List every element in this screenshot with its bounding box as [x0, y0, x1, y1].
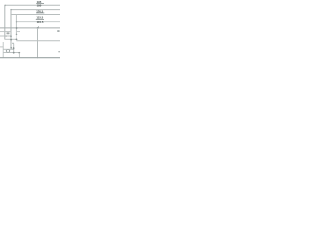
label: stub text right of V2	[12, 43, 14, 44]
wire: H6 stub y=31.6	[16, 31, 20, 33]
wire: vertical V1 x=4.8	[4, 5, 6, 39]
wire: left dim line y=31.6	[0, 31, 11, 33]
wire: profile top edge H1	[5, 4, 60, 6]
node: top-left corner (5,5)	[4, 5, 6, 7]
wire: H4 y=21.7	[16, 21, 60, 23]
wire: V3 faint lower part	[15, 35, 17, 40]
node: circle left dot	[6, 50, 7, 51]
wire: vertical V5 x=13.7	[13, 44, 15, 54]
wire: H5 y=27.9 full width	[0, 27, 60, 29]
wire: vertical V3 x=16.4	[15, 15, 17, 36]
wire: left dim line y=36	[0, 35, 11, 37]
node: V5 dim junction 2	[13, 52, 15, 54]
node: y36 line right end junction	[10, 35, 12, 37]
wire: H8 y=39.3	[5, 38, 17, 40]
wire: left edge line y=46.9	[0, 46, 3, 48]
node: H9 end junction	[18, 52, 20, 54]
wire: dim line y=52.6	[3, 52, 19, 54]
svg-text:180: 180	[37, 3, 42, 7]
wire: vertical V4 x=37.5	[37, 28, 39, 58]
node: V3 mid dot	[16, 34, 18, 36]
node: H4 start dot	[16, 21, 17, 22]
wire: dim line y=49.3	[3, 48, 14, 50]
wire: underline for 115	[36, 18, 44, 20]
symbol: circle between dim lines	[7, 49, 10, 52]
wire: H2 y=9.6	[11, 9, 60, 11]
node: V2 bottom arrow	[10, 47, 12, 49]
wire: H3 y=14.5	[11, 14, 60, 16]
node: V2 x H8 junction	[10, 39, 12, 41]
node: V3 end dot	[16, 39, 18, 41]
wire: vertical V2 x=11	[10, 10, 12, 49]
wire: H7 y=40.7	[16, 40, 60, 42]
node: V5 dim junction 1	[13, 47, 15, 50]
node: circle right dot	[9, 50, 10, 51]
svg-text:115.5: 115.5	[37, 20, 44, 24]
node: corner (11,9.6)	[10, 9, 12, 11]
label: right edge smudge 2	[58, 51, 60, 52]
wire: underline for 176.5	[36, 12, 44, 14]
node: V4 top junction	[37, 27, 39, 29]
wire: vertical V6 x=19.4	[18, 53, 20, 58]
label: left text 15	[7, 32, 10, 34]
wire: vertical V0 x=3.2	[2, 42, 4, 58]
node: V3 x H5 junction	[16, 27, 18, 29]
wire: underline for 195	[36, 3, 44, 5]
node: tick above H5	[37, 26, 40, 28]
label: right edge smudge 1	[57, 30, 59, 32]
background	[0, 0, 60, 60]
wire: bottom line H10	[0, 57, 60, 59]
node: y36 line small tick	[5, 35, 8, 36]
